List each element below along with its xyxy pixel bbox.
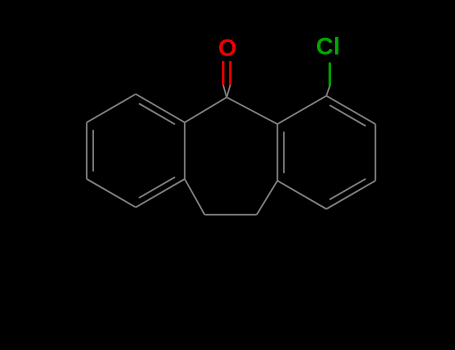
C=O gray stub 1	[223, 85, 227, 97]
bond CH2 to right ring	[257, 181, 278, 215]
right ring double bond inner BL-TL	[283, 132, 285, 174]
right ring double bond inner top-TR	[330, 105, 366, 126]
right ring bond bottom-BL	[277, 181, 326, 209]
left ring bond top-TR	[136, 94, 185, 122]
C-Cl bond gray segment	[326, 86, 329, 96]
bond left ring to CH2	[185, 179, 205, 215]
left ring bond bottom-BL	[87, 179, 136, 207]
svg-text:Cl: Cl	[316, 34, 340, 61]
left ring double bond inner top-TR	[139, 104, 175, 125]
right ring bond TL-top	[277, 96, 326, 124]
bond carbonyl C to left ring	[185, 97, 227, 122]
right ring bond BR-bottom	[326, 181, 375, 209]
left ring double bond inner BR-bottom	[139, 177, 175, 198]
left ring bond TL-top	[87, 94, 136, 122]
bond carbonyl C to right ring	[227, 97, 278, 124]
right ring double bond inner BR-bottom	[330, 179, 366, 200]
C=O gray stub 2	[227, 85, 231, 97]
left ring double bond inner BL-TL	[92, 130, 94, 172]
bond CH2-CH2	[205, 214, 257, 216]
C-Cl bond green segment	[329, 63, 331, 87]
left ring bond BL-TL	[86, 122, 88, 179]
left ring bond BR-bottom	[136, 179, 185, 207]
right ring bond top-TR	[326, 96, 375, 124]
right ring bond TR-BR	[374, 124, 376, 181]
C=O double bond line 1	[222, 61, 224, 85]
svg-text:O: O	[218, 35, 237, 62]
right ring bond BL-TL	[276, 124, 278, 181]
left ring bond TR-BR	[184, 122, 186, 179]
C=O double bond line 2	[229, 61, 231, 85]
